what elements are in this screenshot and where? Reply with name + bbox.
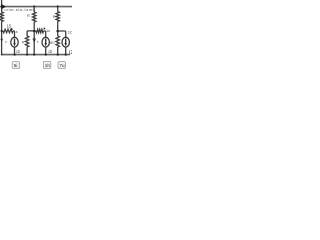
wire bottom rail [1, 54, 69, 56]
current source I2 circle [42, 37, 49, 47]
svg-text:R: R [27, 13, 30, 18]
arrowhead current on branch x34 [33, 39, 36, 44]
wire source2 bottom [45, 47, 47, 55]
answer box 1 [12, 62, 19, 69]
wire to source2 top [44, 31, 46, 37]
junction dot bottom x57 [57, 53, 59, 55]
arrow inside source2 [45, 39, 47, 45]
wire mid lead left [34, 30, 36, 32]
junction dot mid x57 [56, 30, 59, 33]
svg-text:7u: 7u [59, 63, 65, 68]
wire source3 bottom [65, 47, 67, 55]
answer box 2 [43, 61, 50, 68]
svg-text:r=vim-sta-tami: r=vim-sta-tami [2, 7, 34, 12]
resistor R-mid-left horizontal [3, 29, 13, 32]
svg-text:1s: 1s [14, 29, 18, 34]
junction dot bottom x65 [65, 53, 67, 55]
resistor R-27 vertical [25, 36, 28, 47]
resistor R-34 vertical [33, 12, 36, 22]
wire right middle to source3 [58, 31, 66, 37]
arrowhead inside source2 [44, 43, 47, 46]
arrow inside source3 [65, 39, 67, 45]
svg-text:R: R [53, 14, 56, 19]
wire branch x34 top lead [33, 7, 35, 13]
svg-text:(2: (2 [69, 50, 72, 56]
wire source1 bottom [14, 47, 16, 55]
arrowhead top-left current i on rail [1, 4, 6, 9]
resistor R-57 lower vertical [56, 36, 59, 47]
junction dot bottom x45 [45, 53, 47, 55]
junction dot bottom x14 [13, 53, 15, 55]
wire R27 bottom lead [26, 47, 28, 55]
wire branch x57 top lead [57, 7, 59, 12]
svg-text:x: x [37, 40, 39, 44]
junction dot bottom-left corner [1, 54, 3, 56]
arrowhead inside source3 [64, 43, 67, 46]
svg-text:x: x [5, 40, 7, 44]
answer box 3 [58, 62, 65, 69]
junction dot bottom x27 [26, 53, 28, 55]
wire tap to R27 [27, 31, 34, 36]
svg-text:R: R [22, 39, 25, 44]
wire middle-left lead [2, 30, 3, 32]
wire branch x34 middle and lower [33, 22, 35, 55]
resistor R-57 upper vertical [56, 12, 59, 22]
wire to source1 top [13, 31, 15, 37]
resistor R-mid horizontal [36, 29, 44, 32]
svg-text:i2: i2 [49, 49, 53, 54]
junction dot mid x34 [33, 30, 36, 33]
arrow inside source1 [14, 39, 16, 45]
wire R57 bottom lead [57, 47, 59, 55]
junction dot bottom x34 [33, 53, 35, 55]
svg-text:1s: 1s [46, 28, 50, 33]
wire top rail [0, 6, 72, 8]
current source I3 circle [62, 37, 69, 47]
svg-text:1h: 1h [45, 63, 51, 68]
arrowhead current label mid-left [11, 28, 13, 31]
wire branch x57 middle [57, 22, 59, 37]
svg-text:5i: 5i [14, 63, 18, 68]
junction dot top rail x34 [33, 5, 35, 7]
arrowhead current on left branch [0, 39, 3, 42]
current source I1 circle [11, 37, 18, 47]
wire left vertical upper stub [1, 0, 3, 12]
arrowhead inside source1 [13, 43, 16, 46]
svg-text:i2: i2 [16, 49, 20, 54]
resistor R-left vertical [0, 12, 3, 22]
svg-text:1Ω: 1Ω [68, 29, 72, 34]
junction dot top rail x57 [57, 5, 59, 7]
svg-text:lEl: lEl [50, 40, 54, 45]
wire left vertical lower [1, 22, 3, 55]
arrowhead current label mid [43, 27, 45, 30]
svg-text:15: 15 [7, 23, 12, 28]
junction dot mid-left [1, 30, 3, 32]
